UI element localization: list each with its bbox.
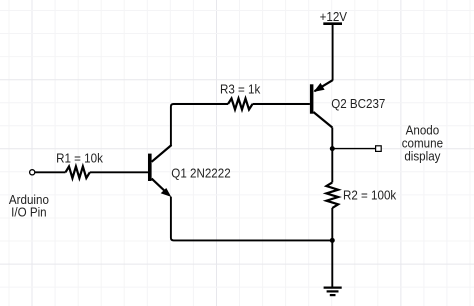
label Anodo comune display (402, 123, 443, 164)
svg-text:display: display (404, 149, 441, 164)
node junction at Q2 collector / R2 top (330, 146, 335, 151)
power rail +12V (320, 9, 348, 24)
svg-text:Q1 2N2222: Q1 2N2222 (171, 166, 230, 181)
ground symbol (324, 288, 342, 296)
wire from +12V to Q2 emitter (332, 24, 334, 81)
resistor R1 = 10k (35, 151, 148, 178)
wire node to square terminal (332, 148, 375, 150)
square terminal (anode) (376, 146, 382, 152)
svg-text:I/O Pin: I/O Pin (11, 205, 47, 220)
wire Q1 collector to R3 node (171, 104, 174, 146)
resistor R3 = 1k (174, 82, 310, 110)
node junction at bottom wire / R2 bottom (330, 238, 335, 243)
wire node to ground (331, 240, 333, 287)
svg-text:R2 = 100k: R2 = 100k (343, 188, 397, 203)
label Arduino I/O Pin (9, 192, 49, 219)
svg-text:+12V: +12V (320, 9, 348, 24)
svg-text:R3 = 1k: R3 = 1k (220, 82, 261, 97)
wire Q2 collector down to node (331, 128, 333, 149)
transistor Q2 BC237 (PNP) (310, 80, 386, 127)
resistor R2 = 100k (326, 149, 397, 241)
terminal circle (Arduino I/O pin) (30, 170, 35, 175)
svg-text:Q2 BC237: Q2 BC237 (331, 96, 385, 111)
svg-text:R1 = 10k: R1 = 10k (56, 151, 104, 166)
wire Q1 emitter down and along bottom (171, 197, 332, 241)
transistor Q1 2N2222 (NPN) (148, 145, 231, 197)
